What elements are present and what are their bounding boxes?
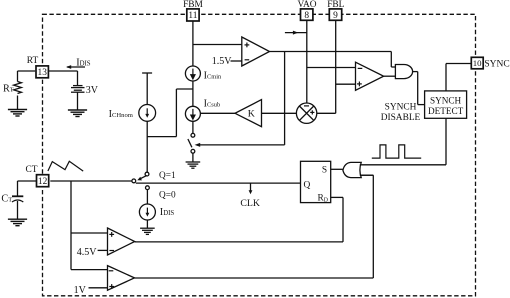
svg-text:K: K: [248, 108, 255, 119]
svg-text:FBM: FBM: [183, 0, 203, 10]
svg-text:SYNCH: SYNCH: [385, 102, 417, 112]
svg-text:SYNC: SYNC: [484, 60, 509, 70]
svg-text:8: 8: [304, 11, 309, 21]
svg-text:DISABLE: DISABLE: [381, 113, 421, 123]
svg-text:S: S: [322, 165, 327, 175]
svg-text:1.5V: 1.5V: [212, 56, 233, 67]
svg-text:12: 12: [38, 177, 48, 187]
svg-text:ICsub: ICsub: [204, 99, 221, 110]
svg-text:Q=0: Q=0: [159, 190, 176, 200]
svg-text:CT: CT: [26, 165, 38, 175]
svg-text:FBL: FBL: [327, 0, 344, 10]
svg-text:VAO: VAO: [297, 0, 316, 10]
svg-text:10: 10: [473, 58, 482, 68]
svg-text:13: 13: [38, 68, 48, 78]
svg-text:DETECT: DETECT: [428, 106, 464, 116]
svg-text:3V: 3V: [86, 85, 99, 96]
svg-text:9: 9: [333, 11, 338, 21]
svg-text:11: 11: [188, 11, 197, 21]
svg-text:4.5V: 4.5V: [77, 247, 98, 258]
svg-text:1V: 1V: [74, 285, 87, 296]
svg-text:ICHnom: ICHnom: [109, 109, 134, 120]
svg-text:CT: CT: [1, 194, 12, 205]
svg-text:Q: Q: [304, 181, 311, 191]
svg-text:RT: RT: [27, 56, 39, 66]
svg-text:RD: RD: [318, 194, 328, 204]
svg-text:Q=1: Q=1: [159, 171, 176, 181]
svg-text:SYNCH: SYNCH: [430, 96, 462, 106]
svg-text:IDIS: IDIS: [76, 57, 91, 68]
svg-text:ICmin: ICmin: [204, 70, 222, 81]
svg-text:IDIS: IDIS: [160, 207, 175, 218]
svg-text:CLK: CLK: [240, 198, 260, 209]
